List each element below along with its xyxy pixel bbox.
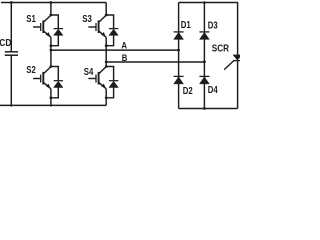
wire node A line <box>51 49 179 51</box>
svg-text:S3: S3 <box>82 13 92 24</box>
freewheel diode of S3 <box>106 15 118 46</box>
node S1 leg tap on top bus <box>50 1 53 4</box>
svg-text:D2: D2 <box>183 85 193 96</box>
svg-text:A: A <box>121 40 127 51</box>
wire rectifier left column <box>178 3 180 109</box>
label A <box>121 40 127 51</box>
node D3 on rectifier top bus <box>203 1 206 4</box>
wire S3 down across A to node B <box>105 46 107 62</box>
svg-text:D1: D1 <box>181 19 191 30</box>
freewheel diode of S1 <box>51 15 63 46</box>
label D4 <box>208 84 218 95</box>
node B tap on S3 leg <box>105 61 108 64</box>
wire emitter of S3 <box>105 37 107 45</box>
svg-text:B: B <box>122 52 128 63</box>
wire rectifier bottom bus <box>179 108 238 110</box>
node A on rectifier left column <box>177 49 180 52</box>
freewheel diode of S4 <box>106 67 118 98</box>
transistor S4 <box>88 67 106 89</box>
node junction bottom of S3 <box>105 44 108 47</box>
svg-text:SCR: SCR <box>212 43 230 54</box>
svg-text:S4: S4 <box>84 66 94 77</box>
wire rectifier top bus <box>179 2 239 4</box>
label D3 <box>208 19 218 30</box>
wire S3/S4 midpoint down <box>105 62 107 67</box>
svg-text:D4: D4 <box>208 84 218 95</box>
node S2 on bottom bus <box>50 104 52 106</box>
wire capacitor top lead <box>10 3 12 52</box>
node junction top of S4 <box>105 65 108 68</box>
wire S2 emitter to bottom bus <box>50 98 52 106</box>
wire bottom DC bus <box>0 104 106 106</box>
label B <box>122 52 128 63</box>
node capacitor tap on top bus <box>10 1 13 4</box>
node capacitor tap on bottom bus <box>10 104 12 106</box>
svg-text:S1: S1 <box>26 13 36 24</box>
label S3 <box>82 13 92 24</box>
transistor S1 <box>33 15 51 37</box>
label D1 <box>181 19 191 30</box>
label SCR <box>212 43 230 54</box>
node junction bottom of S2 <box>50 96 53 99</box>
svg-text:CD: CD <box>0 37 12 48</box>
wire S1 to node A <box>50 46 52 50</box>
svg-text:D3: D3 <box>208 19 218 30</box>
node D4 on rectifier bottom bus <box>203 107 206 110</box>
thyristor SCR <box>224 55 242 70</box>
label D2 <box>183 85 193 96</box>
node junction top of S1 <box>50 14 53 17</box>
diode D3 <box>199 32 209 40</box>
wire SCR cathode lead <box>237 61 239 109</box>
wire capacitor bottom lead <box>10 55 12 105</box>
label CD <box>0 37 12 48</box>
node junction top of S3 <box>105 14 108 17</box>
diode D2 <box>174 76 184 84</box>
wire S4 emitter to bottom bus <box>105 98 107 106</box>
wire S3 collector from bus <box>105 3 107 16</box>
transistor S3 <box>88 15 106 37</box>
label S4 <box>84 66 94 77</box>
node A tap on S1 leg <box>50 49 53 52</box>
wire rectifier right column <box>203 3 205 109</box>
label S1 <box>26 13 36 24</box>
svg-text:S2: S2 <box>26 64 36 75</box>
node junction bottom of S4 <box>105 96 108 99</box>
wire top DC bus <box>1 2 106 4</box>
wire emitter of S1 <box>50 37 52 45</box>
capacitor CD <box>5 52 18 55</box>
freewheel diode of S2 <box>51 67 63 98</box>
node junction bottom of S1 <box>50 44 53 47</box>
node B on rectifier right column <box>203 60 206 63</box>
wire node B line <box>106 61 204 63</box>
node junction top of S2 <box>50 65 53 68</box>
wire S1/S2 midpoint down <box>50 50 52 66</box>
wire S1 collector from bus <box>50 3 52 16</box>
wire emitter of S4 <box>105 89 107 98</box>
diode D1 <box>174 32 184 40</box>
wire SCR anode lead <box>237 3 239 56</box>
transistor S2 <box>33 67 51 89</box>
label S2 <box>26 64 36 75</box>
wire emitter of S2 <box>50 89 52 98</box>
diode D4 <box>199 76 209 84</box>
